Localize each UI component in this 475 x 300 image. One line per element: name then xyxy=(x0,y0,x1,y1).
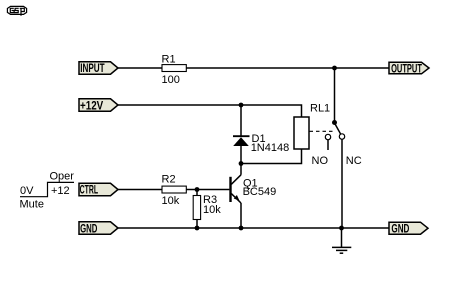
svg-text:INPUT: INPUT xyxy=(80,63,104,75)
wire output node to switch pole xyxy=(334,68,336,123)
port tag GND right xyxy=(389,222,428,234)
resistor R1 xyxy=(162,65,186,72)
annotation step waveform xyxy=(20,182,74,196)
junction emitter / ground xyxy=(239,226,244,231)
diode D1 xyxy=(233,136,250,146)
wire R2 to base xyxy=(186,189,229,191)
resistor R2 xyxy=(162,186,186,193)
relay coil RL1 xyxy=(294,117,309,149)
svg-text:RL1: RL1 xyxy=(310,103,330,115)
svg-text:OUTPUT: OUTPUT xyxy=(391,63,422,75)
svg-text:CTRL: CTRL xyxy=(80,185,99,197)
wire ground rail xyxy=(118,227,389,229)
junction output node xyxy=(332,66,337,71)
svg-text:+12V: +12V xyxy=(80,100,103,112)
transistor Q1 xyxy=(231,164,242,204)
svg-text:10k: 10k xyxy=(162,195,180,207)
svg-text:+12: +12 xyxy=(51,185,70,197)
wire D1 cathode to +12V xyxy=(240,105,242,136)
contact NC xyxy=(339,134,344,139)
contact NO xyxy=(325,134,330,139)
svg-text:NC: NC xyxy=(346,155,362,167)
dashed actuation line xyxy=(310,130,334,132)
port tag OUTPUT xyxy=(389,62,429,74)
wire D1 anode to collector node xyxy=(240,146,242,164)
svg-text:Mute: Mute xyxy=(20,198,44,210)
wire R3 top xyxy=(196,190,198,196)
wire +12V rail xyxy=(118,105,302,117)
port tag +12V xyxy=(79,99,118,111)
port tag CTRL xyxy=(79,183,118,195)
ground symbol xyxy=(332,228,351,253)
svg-text:1N4148: 1N4148 xyxy=(251,142,290,154)
junction base / R3 xyxy=(195,187,200,192)
svg-text:0V: 0V xyxy=(20,185,34,197)
svg-text:10k: 10k xyxy=(203,204,221,216)
junction +12V / D1 xyxy=(239,103,244,108)
svg-text:NO: NO xyxy=(312,155,329,167)
svg-text:R2: R2 xyxy=(162,174,176,186)
wire INPUT to R1 xyxy=(118,67,162,69)
wire CTRL to R2 xyxy=(118,189,162,191)
junction collector node xyxy=(239,161,244,166)
resistor R3 xyxy=(193,196,200,220)
svg-text:GND: GND xyxy=(391,224,409,236)
wire R1 to OUTPUT xyxy=(186,67,389,69)
junction R3 / ground xyxy=(195,226,200,231)
ESP logo xyxy=(7,6,26,15)
port tag INPUT xyxy=(79,62,118,74)
wire NO stub xyxy=(327,140,329,150)
junction NC / ground xyxy=(339,226,344,231)
wire R3 bottom xyxy=(196,220,198,229)
svg-text:100: 100 xyxy=(162,74,180,86)
wire relay coil bottom xyxy=(241,149,302,164)
switch pole dot xyxy=(332,120,337,125)
svg-text:BC549: BC549 xyxy=(243,186,277,198)
switch armature xyxy=(335,124,341,135)
svg-text:GND: GND xyxy=(80,223,97,235)
svg-text:R1: R1 xyxy=(162,53,176,65)
wire NC to ground rail xyxy=(341,139,343,228)
svg-text:Oper: Oper xyxy=(50,170,75,182)
wire emitter to ground rail xyxy=(240,203,242,228)
port tag GND left xyxy=(79,222,118,234)
